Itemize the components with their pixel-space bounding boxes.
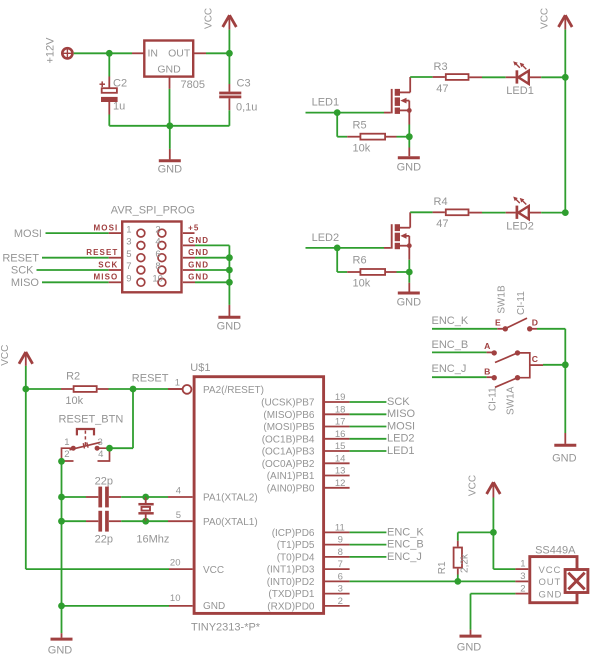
svg-text:R4: R4 [434, 196, 448, 208]
node junction VCC/R1 [490, 529, 497, 536]
svg-text:10: 10 [170, 593, 181, 604]
svg-text:SCK: SCK [11, 265, 34, 277]
pin numbers 1-10 [126, 224, 163, 284]
wire R6 to source node [386, 271, 409, 273]
svg-text:RESET_BTN: RESET_BTN [59, 413, 124, 425]
pin 5 stub [176, 510, 181, 521]
svg-text:LED2: LED2 [387, 433, 415, 445]
svg-text:VCC: VCC [204, 8, 215, 29]
node ENC_J label+wire [432, 363, 495, 377]
crystal Q? 16Mhz [136, 497, 169, 545]
svg-text:GND: GND [157, 64, 181, 76]
right pin numbers [335, 392, 346, 607]
pin circles rows 1-10 [137, 229, 166, 286]
regulator IC1 7805 [144, 41, 205, 92]
svg-text:R1: R1 [437, 561, 448, 574]
svg-text:22p: 22p [95, 476, 113, 488]
node junction OUT/C3/VCC [226, 50, 233, 57]
node junction gate/R5 [334, 109, 341, 116]
svg-text:22p: 22p [95, 533, 113, 545]
svg-text:MISO: MISO [11, 277, 40, 289]
svg-text:17: 17 [335, 417, 346, 428]
node junction pin6 [226, 254, 233, 261]
svg-text:CI-11: CI-11 [488, 387, 499, 411]
wire to R6 [337, 248, 359, 272]
svg-text:3: 3 [126, 237, 131, 248]
svg-text:1: 1 [126, 224, 131, 235]
svg-text:C: C [532, 354, 538, 364]
svg-text:(UCSK)PB7: (UCSK)PB7 [261, 398, 315, 409]
wire VCC rail [564, 30, 566, 213]
wire to R5 [337, 113, 359, 137]
diode LED2 [506, 197, 565, 233]
svg-text:(T0)PD4: (T0)PD4 [277, 553, 315, 564]
wire VCC to sensor pin1 [493, 568, 528, 570]
node LED1 wire+label [350, 445, 415, 457]
right pin stubs PD6-PD0 [325, 532, 350, 606]
capacitor C3 [219, 53, 257, 126]
wire RESET down to button [110, 389, 134, 448]
svg-text:7: 7 [126, 261, 131, 272]
resistor R4 47 [434, 196, 469, 230]
node junction VCC/R2 [22, 386, 29, 393]
svg-text:ENC_B: ENC_B [387, 539, 424, 551]
svg-text:5: 5 [126, 249, 131, 260]
node junction RESET [130, 386, 137, 393]
wire source down [408, 110, 410, 136]
svg-text:R2: R2 [66, 371, 80, 383]
node junction pin8 [226, 267, 233, 274]
wire xtal1 to pin5 [146, 520, 193, 522]
svg-text:3: 3 [520, 571, 525, 582]
svg-text:B: B [484, 367, 490, 377]
svg-text:SS449A: SS449A [535, 545, 576, 557]
node MISO wire+label [350, 408, 416, 420]
svg-text:(ICP)PD6: (ICP)PD6 [272, 528, 315, 539]
svg-text:IN: IN [148, 48, 159, 60]
svg-text:A: A [484, 341, 490, 351]
supply VCC (led rail) [539, 8, 572, 30]
capacitor C? 22p (top) [62, 476, 146, 508]
ground GND (encoder) [552, 433, 577, 464]
wire RESET to pin1 [133, 388, 183, 390]
wire gate LED1 [306, 112, 391, 114]
svg-text:6: 6 [338, 571, 343, 582]
svg-text:VCC: VCC [468, 475, 479, 496]
pin 10 stub [170, 593, 181, 604]
svg-text:9: 9 [126, 274, 131, 285]
supply +12V [45, 37, 73, 64]
svg-text:PA0(XTAL1): PA0(XTAL1) [203, 517, 258, 528]
transistor Q1 (N-MOSFET) [392, 77, 412, 114]
svg-text:ENC_K: ENC_K [387, 526, 424, 538]
svg-text:GND: GND [397, 161, 422, 173]
supply VCC (mcu) [0, 345, 33, 366]
svg-text:(AIN1)PB1: (AIN1)PB1 [267, 471, 315, 482]
connector AVR_SPI_PROG [111, 205, 195, 293]
wire VCC down to pin20 [26, 366, 193, 569]
svg-text:MISO: MISO [94, 273, 119, 282]
wire drain to R4 [410, 211, 445, 213]
transistor Q2 (N-MOSFET) [392, 212, 412, 249]
svg-text:RESET: RESET [86, 248, 118, 257]
ground GND (power) [158, 126, 183, 176]
pin 4 stub [176, 486, 181, 497]
svg-text:R3: R3 [434, 61, 448, 73]
svg-text:SCK: SCK [98, 260, 118, 269]
svg-text:SW1A: SW1A [505, 386, 516, 415]
svg-text:1: 1 [175, 378, 180, 389]
switch SW1A [484, 341, 543, 415]
svg-text:1: 1 [520, 559, 525, 570]
wire encoder rail down [564, 329, 566, 433]
svg-text:LED2: LED2 [506, 221, 534, 233]
node SCK label+wire [11, 265, 121, 277]
svg-text:GND: GND [188, 260, 209, 269]
wire pin8 GND [183, 269, 230, 271]
pin 3 stub [515, 580, 528, 582]
wire D to rail [530, 328, 566, 330]
ground GND (Q2) [397, 272, 422, 309]
svg-text:D: D [532, 318, 538, 328]
svg-text:12: 12 [335, 478, 346, 489]
node junction source/R5/GND [406, 133, 413, 140]
svg-text:GND: GND [217, 321, 242, 333]
svg-text:E: E [495, 318, 501, 328]
node ENC_J wire+label [350, 551, 422, 563]
svg-text:(T1)PD5: (T1)PD5 [277, 540, 315, 551]
svg-text:(INT1)PD3: (INT1)PD3 [267, 565, 315, 576]
svg-text:16Mhz: 16Mhz [136, 533, 169, 545]
svg-text:VCC: VCC [0, 345, 11, 366]
wire drain to R3 [410, 76, 445, 78]
capacitor C2 [100, 53, 128, 126]
svg-text:47: 47 [436, 83, 448, 95]
svg-text:2: 2 [64, 449, 69, 460]
svg-text:1: 1 [64, 437, 69, 448]
svg-text:GND: GND [158, 164, 183, 176]
svg-text:ENC_J: ENC_J [432, 363, 467, 375]
wire R3 to LED1 [469, 76, 515, 78]
svg-text:OUT: OUT [168, 48, 191, 60]
pin 1 PA2(/RESET) [168, 378, 191, 394]
svg-text:SW1B: SW1B [496, 285, 507, 314]
svg-text:C3: C3 [237, 78, 251, 90]
supply VCC (power) [204, 8, 237, 53]
wire VCC down [492, 498, 494, 570]
svg-text:(OC1A)PB3: (OC1A)PB3 [262, 447, 315, 458]
svg-text:CI-11: CI-11 [516, 291, 527, 315]
wire pin4 GND [183, 244, 230, 246]
svg-text:GND: GND [188, 248, 209, 257]
svg-text:7805: 7805 [181, 79, 205, 91]
wire R1 bottom to PD2 net [457, 569, 459, 582]
node junction crystal bottom [142, 518, 149, 525]
wire R2 to RESET node [98, 388, 133, 390]
svg-text:ENC_J: ENC_J [387, 551, 422, 563]
supply VCC (sensor) [468, 475, 501, 498]
svg-text:13: 13 [335, 466, 346, 477]
svg-text:PA1(XTAL2): PA1(XTAL2) [203, 493, 258, 504]
svg-text:1u: 1u [113, 100, 125, 112]
svg-text:5: 5 [176, 510, 181, 521]
svg-text:19: 19 [335, 392, 346, 403]
IC U$1 TINY2313 [190, 362, 323, 634]
node MOSI wire+label [350, 420, 416, 432]
svg-text:TINY2313-*P*: TINY2313-*P* [191, 622, 261, 634]
svg-text:10k: 10k [65, 395, 83, 407]
svg-text:SCK: SCK [387, 396, 410, 408]
wire GND drop [228, 245, 230, 305]
resistor R5 10k [353, 119, 386, 154]
wire PD2 to sensor [350, 580, 516, 582]
svg-text:ENC_B: ENC_B [432, 339, 469, 351]
node junction +12V/C2 [106, 50, 113, 57]
svg-text:GND: GND [48, 644, 73, 656]
wire pin6 GND [183, 257, 230, 259]
wire 7805 GND pin [169, 77, 171, 126]
svg-text:VCC: VCC [539, 8, 550, 29]
diode LED1 [506, 61, 565, 97]
pin 20 stub [170, 558, 181, 569]
svg-text:20: 20 [170, 558, 181, 569]
svg-text:VCC: VCC [203, 565, 224, 576]
node ENC_B label+wire [432, 339, 495, 352]
node junction R1/PD2 [454, 578, 461, 585]
sensor U? SS449A [520, 545, 588, 603]
svg-text:(OC1B)PB4: (OC1B)PB4 [262, 434, 315, 445]
wire gnd bus left [61, 461, 63, 633]
node SCK wire+label [350, 396, 411, 408]
node ENC_K wire+label [350, 526, 425, 538]
svg-text:(AIN0)PB0: (AIN0)PB0 [267, 483, 315, 494]
svg-text:2: 2 [338, 596, 343, 607]
node junction gate/R6 [334, 245, 341, 252]
node MOSI label+wire [14, 228, 121, 240]
wire R5 to source node [386, 136, 409, 138]
right pin labels PB [261, 398, 315, 613]
svg-text:3: 3 [98, 437, 103, 448]
svg-text:PA2(/RESET): PA2(/RESET) [203, 385, 264, 396]
node junction rail/LED1 [562, 74, 569, 81]
node junction C/rail [562, 361, 569, 368]
svg-text:VCC: VCC [539, 565, 562, 576]
svg-text:2: 2 [155, 224, 160, 235]
svg-text:4: 4 [155, 237, 160, 248]
node junction button pin3 [106, 445, 113, 452]
node junction button pin2 [58, 458, 65, 465]
svg-text:RESET: RESET [132, 373, 169, 385]
svg-text:2: 2 [520, 583, 525, 594]
svg-text:2,2k: 2,2k [460, 553, 471, 573]
svg-text:R5: R5 [353, 119, 367, 131]
svg-text:4: 4 [176, 486, 181, 497]
svg-text:10: 10 [152, 274, 163, 285]
svg-text:(OC0A)PB2: (OC0A)PB2 [262, 459, 315, 470]
svg-text:GND: GND [457, 641, 482, 653]
svg-text:47: 47 [436, 218, 448, 230]
pin 2 stub [183, 232, 195, 234]
svg-text:GND: GND [539, 589, 563, 600]
left pin labels [203, 385, 264, 612]
wire gate LED2 [306, 247, 391, 249]
svg-text:MISO: MISO [387, 408, 416, 420]
switch SW1B [495, 285, 538, 331]
ground GND (sensor) [457, 630, 482, 654]
svg-text:MOSI: MOSI [94, 224, 119, 233]
svg-text:OUT: OUT [539, 577, 562, 588]
node junction source/R6/GND [406, 269, 413, 276]
svg-text:LED2: LED2 [312, 232, 340, 244]
node MISO label+wire [11, 277, 121, 289]
wire pin10 GND [62, 605, 193, 607]
node LED2 wire+label [350, 433, 415, 445]
wire pin10 GND [183, 281, 230, 283]
wire pin2 to GND [471, 594, 516, 630]
svg-text:R6: R6 [353, 255, 367, 267]
svg-text:GND: GND [397, 297, 422, 309]
wire R4 to LED2 [469, 212, 515, 214]
svg-text:MOSI: MOSI [14, 228, 42, 240]
wire source down Q2 [408, 246, 410, 272]
ground GND (Q1) [397, 137, 422, 174]
wire VCC to R1 top [458, 532, 494, 546]
svg-text:(MOSI)PB5: (MOSI)PB5 [263, 422, 315, 433]
svg-text:15: 15 [335, 441, 346, 452]
pin 2 stub [515, 593, 528, 595]
svg-text:ENC_K: ENC_K [432, 315, 469, 327]
node ENC_K label+wire [432, 315, 506, 329]
node junction crystal top [142, 494, 149, 501]
button RESET_BTN [59, 413, 124, 461]
svg-text:GND: GND [188, 236, 209, 245]
node junction rail/LED2 [562, 209, 569, 216]
svg-text:RESET: RESET [2, 252, 39, 264]
resistor R1 2,2k [437, 548, 471, 575]
svg-text:8: 8 [155, 261, 160, 272]
svg-text:AVR_SPI_PROG: AVR_SPI_PROG [111, 205, 195, 217]
svg-text:C2: C2 [113, 78, 127, 90]
svg-text:+12V: +12V [45, 37, 57, 64]
svg-text:LED1: LED1 [506, 85, 534, 97]
ground GND (mcu) [48, 633, 73, 656]
svg-text:(TXD)PD1: (TXD)PD1 [268, 589, 315, 600]
node junction xtal2 cap [58, 494, 65, 501]
svg-text:(RXD)PD0: (RXD)PD0 [267, 602, 315, 613]
wire C to rail [543, 364, 565, 366]
svg-text:GND: GND [203, 601, 225, 612]
node RESET label+wire [2, 252, 121, 264]
svg-text:11: 11 [335, 522, 345, 533]
svg-text:0,1u: 0,1u [236, 101, 257, 113]
svg-text:(MISO)PB6: (MISO)PB6 [263, 410, 315, 421]
svg-text:4: 4 [98, 449, 103, 460]
resistor R2 10k [65, 371, 96, 407]
svg-text:6: 6 [155, 249, 160, 260]
svg-text:14: 14 [335, 453, 346, 464]
right pin stubs PB7-PB0 [325, 402, 350, 488]
svg-text:MOSI: MOSI [387, 420, 415, 432]
wire VCC to R2 [26, 388, 73, 390]
wire OUT to VCC node [193, 52, 229, 54]
node junction GND bus [166, 122, 173, 129]
svg-text:7: 7 [338, 559, 343, 570]
svg-text:+5: +5 [188, 224, 199, 233]
pin name labels (maroon) [86, 224, 209, 282]
svg-text:18: 18 [335, 404, 346, 415]
svg-text:16: 16 [335, 429, 346, 440]
node junction pin10 [226, 279, 233, 286]
node junction xtal1 cap [58, 518, 65, 525]
node junction GND pin10 [58, 603, 65, 610]
svg-text:8: 8 [338, 547, 343, 558]
svg-text:10k: 10k [353, 142, 371, 154]
capacitor C? 22p (bottom) [62, 511, 146, 546]
svg-text:LED1: LED1 [312, 97, 340, 109]
svg-text:GND: GND [188, 273, 209, 282]
svg-text:LED1: LED1 [387, 445, 415, 457]
svg-text:9: 9 [338, 535, 343, 546]
svg-text:10k: 10k [353, 278, 371, 290]
svg-text:3: 3 [338, 584, 343, 595]
resistor R6 10k [353, 255, 386, 290]
node ENC_B wire+label [350, 539, 424, 551]
wire xtal2 to pin4 [146, 496, 193, 498]
svg-text:GND: GND [552, 452, 577, 464]
resistor R3 47 [434, 61, 469, 95]
wire ground bus C2-C3 [109, 125, 229, 127]
svg-text:U$1: U$1 [190, 362, 210, 374]
wire +12V to IN [74, 52, 145, 54]
svg-text:(INT0)PD2: (INT0)PD2 [267, 577, 315, 588]
ground GND (connector) [217, 305, 242, 333]
